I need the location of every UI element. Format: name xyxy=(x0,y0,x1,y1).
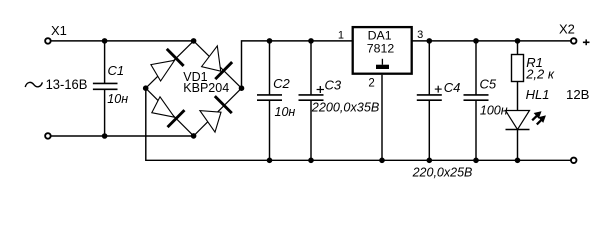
svg-text:7812: 7812 xyxy=(367,41,394,55)
svg-text:10н: 10н xyxy=(275,105,296,119)
svg-text:C3: C3 xyxy=(325,78,342,93)
svg-text:X1: X1 xyxy=(51,23,67,38)
svg-text:220,0x25В: 220,0x25В xyxy=(412,166,473,180)
svg-text:13-16В: 13-16В xyxy=(46,77,88,92)
svg-text:HL1: HL1 xyxy=(526,87,550,102)
svg-text:2,2 к: 2,2 к xyxy=(525,66,555,81)
svg-text:KBP204: KBP204 xyxy=(183,81,229,95)
svg-text:3: 3 xyxy=(417,29,423,41)
svg-text:C5: C5 xyxy=(480,76,497,91)
svg-text:1: 1 xyxy=(338,30,344,42)
svg-text:2200,0x35В: 2200,0x35В xyxy=(311,101,380,115)
svg-text:100н: 100н xyxy=(480,104,508,118)
svg-text:C2: C2 xyxy=(273,76,290,91)
svg-text:12В: 12В xyxy=(566,87,590,102)
svg-text:C1: C1 xyxy=(108,63,125,78)
svg-text:10н: 10н xyxy=(107,92,128,106)
svg-text:2: 2 xyxy=(368,77,374,89)
svg-text:X2: X2 xyxy=(559,22,575,37)
svg-text:C4: C4 xyxy=(444,80,461,95)
